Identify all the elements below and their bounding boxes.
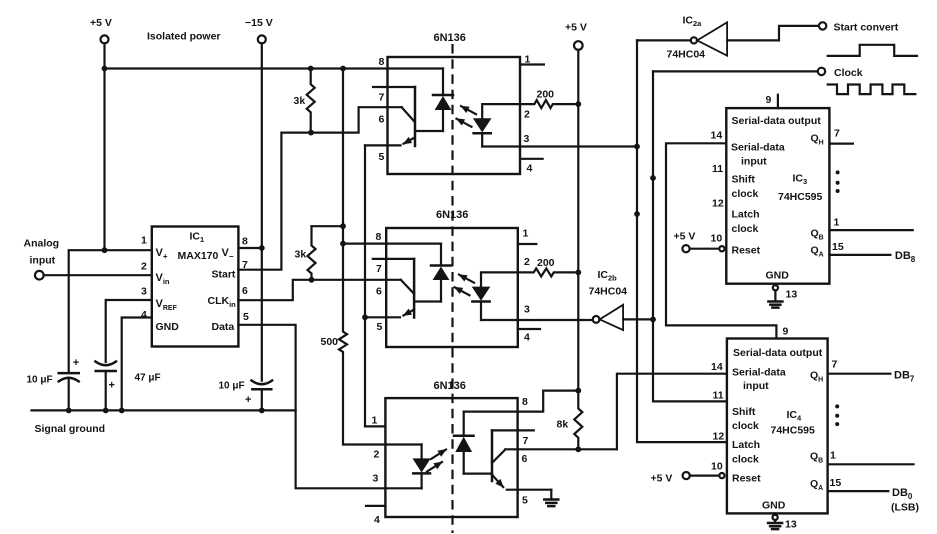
svg-text:15: 15 [832, 241, 844, 253]
wire IC1 GND pin4 to signal ground [122, 318, 152, 411]
svg-text:+: + [109, 380, 115, 392]
node: clock vertical to IC3 shift clock [650, 175, 656, 181]
opto1 pin4 stub [520, 158, 543, 160]
svg-text:clock: clock [732, 223, 759, 235]
svg-text:7: 7 [376, 263, 382, 275]
svg-text:6N136: 6N136 [434, 380, 466, 392]
wire analog input to IC1 Vin [44, 274, 152, 276]
resistor 8k (data pull-up) [574, 391, 582, 450]
svg-text:Clock: Clock [834, 67, 863, 79]
svg-text:Reset: Reset [732, 473, 761, 485]
svg-text:+5 V: +5 V [651, 473, 673, 485]
node: rail to isolated bus vertical [340, 66, 346, 72]
svg-text:7: 7 [379, 92, 385, 104]
optocoupler 6N136 (middle, Clock) [343, 209, 540, 347]
capacitor 10uF (-15V bypass) [219, 381, 273, 411]
Start convert pulse waveform [828, 45, 917, 56]
opto3 transistor [491, 430, 494, 481]
-15V supply terminal [245, 17, 273, 381]
IC4 QA output pin15 to DB0 [828, 490, 889, 492]
IC3 labels [731, 115, 824, 282]
IC4 reset +5V terminal [651, 472, 725, 485]
svg-text:7: 7 [523, 435, 529, 447]
opto1 LED [482, 104, 520, 118]
svg-text:6N136: 6N136 [436, 209, 468, 221]
svg-text:10: 10 [711, 461, 723, 473]
opto1 photodiode [433, 94, 453, 97]
wire 3k2 top link to bus [312, 225, 344, 227]
svg-text:+5 V: +5 V [90, 17, 112, 29]
ground (opto3 pin5, host side) [544, 490, 558, 506]
svg-text:1: 1 [834, 217, 840, 229]
svg-text:14: 14 [711, 130, 723, 142]
svg-text:10: 10 [711, 233, 723, 245]
signal ground rail [32, 409, 296, 411]
+5V host supply terminal [565, 22, 587, 391]
op-amp IC1 MAX170 ADC box [152, 227, 239, 347]
svg-text:input: input [743, 380, 769, 392]
svg-text:7: 7 [832, 359, 838, 371]
svg-text:clock: clock [732, 188, 759, 200]
svg-text:1: 1 [523, 228, 529, 240]
svg-text:GND: GND [156, 321, 180, 333]
opto2 transistor [413, 259, 416, 318]
svg-text:9: 9 [766, 94, 772, 106]
wire IC1 Start to opto1 pin6 [238, 107, 401, 270]
node: opto3 pin8 wire to +5V vertical [575, 388, 581, 394]
svg-text:1: 1 [372, 415, 378, 427]
svg-text:Data: Data [212, 321, 235, 333]
opto2 pin4 stub [518, 328, 540, 330]
svg-text:200: 200 [537, 89, 555, 101]
svg-text:74HC04: 74HC04 [667, 49, 706, 61]
wire IC1 CLKin to opto2 pin6 [238, 280, 400, 300]
wire isolated +5V bus vertical with 500 ohm resistor to opto3 LED [339, 69, 422, 445]
svg-text:6: 6 [376, 286, 382, 298]
opto3 light arrows [431, 450, 446, 460]
svg-text:+: + [73, 357, 79, 369]
isolation barrier dashed line [451, 44, 453, 533]
svg-text:3k: 3k [294, 95, 306, 107]
svg-text:−15 V: −15 V [245, 17, 273, 29]
wire IC2a output to start/latch vertical [637, 39, 691, 41]
svg-text:Serial-data: Serial-data [731, 142, 785, 154]
svg-text:+5 V: +5 V [565, 22, 587, 34]
IC4 labels [732, 347, 823, 512]
opto3 pin8 wire to +5V [464, 391, 579, 412]
opto1 photodiode feed from rail [442, 69, 444, 96]
node: 47uF to ground rail [103, 408, 109, 414]
svg-text:MAX170: MAX170 [178, 250, 219, 262]
svg-text:GND: GND [762, 500, 786, 512]
svg-text:5: 5 [243, 311, 249, 323]
svg-text:200: 200 [537, 257, 555, 269]
svg-text:10 μF: 10 μF [27, 375, 53, 386]
svg-text:1: 1 [525, 54, 531, 66]
Clock terminal [818, 68, 825, 75]
node: pin8 to -15V vertical [259, 245, 265, 251]
node: 8k bottom to data wire [575, 446, 581, 452]
wire opto2 pin3 to IC2b output [481, 319, 593, 321]
IC4 QB output pin1 [828, 463, 914, 465]
node: 3k top bottom to start wire [308, 130, 314, 136]
opto2 photodiode [440, 244, 442, 266]
wire IC1 Data to opto3 pin3 [238, 325, 421, 489]
isolated +5V top rail wire [105, 67, 444, 69]
opto3 photodiode [463, 412, 465, 436]
svg-text:1: 1 [830, 450, 836, 462]
svg-text:Start: Start [212, 269, 236, 281]
svg-text:11: 11 [712, 163, 723, 175]
svg-text:74HC595: 74HC595 [771, 425, 816, 437]
wire IC1 pin1 V+ branch down to 10uF cap [69, 250, 152, 373]
svg-text:8: 8 [522, 396, 528, 408]
IC3 reset +5V terminal [674, 231, 725, 253]
svg-text:input: input [30, 255, 56, 267]
resistor 200 (top, opto1 LED) [520, 100, 578, 108]
IC3 pin9 stub [777, 95, 779, 108]
IC1 pin number labels [141, 235, 249, 324]
svg-text:10 μF: 10 μF [219, 381, 245, 392]
shift register IC3 74HC595 box [726, 108, 829, 284]
node: +5V to rail [102, 66, 108, 72]
shift register IC4 74HC595 box [727, 339, 828, 514]
svg-text:6N136: 6N136 [434, 32, 466, 44]
svg-text:8: 8 [242, 236, 248, 248]
node: clock vertical to IC2b input [650, 317, 656, 323]
svg-text:Analog: Analog [24, 238, 60, 250]
IC4 QH output pin7 to DB7 [828, 373, 891, 375]
opto1 light arrows [461, 106, 476, 114]
IC4 pin13 ground [768, 513, 797, 530]
IC3 ellipsis dots [836, 170, 840, 174]
svg-text:3: 3 [373, 473, 379, 485]
svg-text:Start convert: Start convert [834, 22, 899, 34]
svg-text:3: 3 [524, 133, 530, 145]
node: 200 top to +5V vertical [575, 101, 581, 107]
svg-text:74HC04: 74HC04 [589, 286, 628, 298]
wire opto1 pin3 to IC2a output vertical [482, 145, 637, 147]
Start convert terminal [819, 22, 826, 29]
svg-text:+: + [245, 394, 251, 406]
resistor 200 (middle, opto2 LED) [518, 268, 579, 276]
svg-text:13: 13 [785, 519, 797, 531]
svg-text:2: 2 [524, 109, 530, 121]
svg-text:Shift: Shift [732, 406, 756, 418]
wire IC3 serial-data input from IC4 pin9 cascade [666, 143, 776, 337]
svg-text:7: 7 [834, 128, 840, 140]
svg-text:4: 4 [527, 163, 533, 175]
node: opto2 pin5 to emitters tie [362, 314, 368, 320]
svg-text:Signal ground: Signal ground [35, 423, 106, 435]
opto2 pin1 stub [518, 243, 537, 245]
opto2 light arrows [459, 275, 474, 283]
svg-text:4: 4 [141, 309, 147, 321]
svg-text:4: 4 [524, 332, 530, 344]
wire Clock terminal to clock vertical [653, 70, 818, 72]
optocoupler 6N136 (top, Start) [365, 32, 544, 175]
node: -15V cap to ground rail [259, 408, 265, 414]
svg-text:3: 3 [141, 286, 147, 298]
opto1 pin1 stub [520, 63, 544, 65]
wire IC2a input from Start convert terminal [727, 26, 819, 41]
svg-text:2: 2 [374, 449, 380, 461]
opto3 pin4 stub [366, 505, 385, 507]
svg-text:input: input [741, 156, 767, 168]
svg-text:12: 12 [713, 431, 725, 443]
IC4 ellipsis dots [835, 404, 839, 408]
node: start vertical to IC3 latch clock [634, 211, 640, 217]
svg-text:clock: clock [732, 420, 759, 432]
svg-text:6: 6 [242, 285, 248, 297]
IC3 QB output pin1 [829, 229, 912, 231]
node: +5V vertical to pin1 wire [102, 247, 108, 253]
wire IC1 pin8 V- to -15V [238, 247, 261, 249]
svg-text:6: 6 [379, 114, 385, 126]
svg-text:Serial-data: Serial-data [732, 367, 786, 379]
svg-text:5: 5 [522, 495, 528, 507]
inverter IC2b 74HC04 [589, 269, 628, 330]
IC1 labels [156, 231, 237, 334]
svg-text:2: 2 [524, 256, 530, 268]
opto3 LED [421, 445, 423, 459]
svg-text:13: 13 [786, 289, 798, 301]
svg-text:14: 14 [711, 361, 723, 373]
node: pin4 wire to ground rail [119, 408, 125, 414]
IC3 pin13 ground [768, 284, 797, 308]
wire inverted-start/latch vertical to IC4 latch clock [637, 40, 727, 442]
svg-text:11: 11 [713, 390, 724, 402]
Clock square waveform [828, 85, 916, 95]
wire opto3 pin6 data output [505, 448, 617, 450]
svg-text:6: 6 [522, 453, 528, 465]
svg-text:9: 9 [783, 326, 789, 338]
svg-text:1: 1 [141, 235, 147, 247]
svg-text:47 μF: 47 μF [135, 373, 161, 384]
node: start vertical to opto1 pin3 wire [634, 144, 640, 150]
svg-text:500: 500 [321, 336, 339, 348]
node: 10uF to ground rail [66, 408, 72, 414]
emitters tie vertical wire (opto1 pin5 / opto2 pin5 / opto3 pin1) [364, 145, 366, 426]
capacitor 47uF (VREF) [95, 300, 160, 410]
svg-text:Shift: Shift [732, 174, 756, 186]
svg-text:8k: 8k [557, 419, 569, 431]
optocoupler 6N136 (bottom, Data) [365, 380, 578, 526]
svg-text:8: 8 [376, 231, 382, 243]
wire IC2b input from clock vertical [623, 318, 653, 320]
analog input terminal [35, 271, 44, 280]
resistor 3k (middle, Clock pull-up) [308, 226, 316, 280]
opto1 transistor [414, 87, 417, 146]
svg-text:Serial-data output: Serial-data output [733, 347, 823, 359]
node: rail to 3k pullup [308, 66, 314, 72]
svg-text:Latch: Latch [732, 439, 760, 451]
svg-text:3: 3 [524, 304, 530, 316]
svg-text:Latch: Latch [732, 209, 760, 221]
svg-text:3k: 3k [295, 249, 307, 261]
node: bus to 3k2 [340, 223, 346, 229]
svg-text:15: 15 [830, 477, 842, 489]
opto3 pin1 stub from emitters tie [365, 425, 385, 427]
capacitor 10uF (V+ bypass) [27, 357, 80, 410]
+5V isolated supply terminal [90, 17, 112, 250]
wire clock vertical to IC4 shift clock [653, 71, 727, 401]
inverter IC2a 74HC04 [667, 15, 728, 61]
svg-text:4: 4 [374, 514, 380, 526]
IC3 QH output stub pin7 [829, 143, 853, 145]
svg-text:8: 8 [379, 56, 385, 68]
node: 200 middle to +5V vertical [575, 270, 581, 276]
svg-text:Reset: Reset [732, 245, 761, 257]
wire opto3 data to IC4 serial-data input [617, 374, 727, 450]
svg-text:5: 5 [377, 321, 383, 333]
opto2 pin8 wire from isolated bus [343, 243, 441, 245]
svg-text:12: 12 [712, 198, 724, 210]
svg-text:clock: clock [732, 454, 759, 466]
svg-text:Serial-data output: Serial-data output [732, 115, 822, 127]
node: bus to opto2 pin8 [340, 241, 346, 247]
opto2 LED [481, 272, 518, 286]
svg-text:GND: GND [766, 270, 790, 282]
IC3 QA output pin15 to DB8 [829, 254, 890, 256]
resistor 3k (top, Start pull-up) [307, 69, 315, 133]
svg-text:2: 2 [141, 261, 147, 273]
node: 3k2 bottom to clock wire [309, 277, 315, 283]
svg-text:74HC595: 74HC595 [778, 191, 823, 203]
svg-text:(LSB): (LSB) [891, 502, 919, 514]
svg-text:5: 5 [379, 151, 385, 163]
svg-text:Isolated power: Isolated power [147, 31, 221, 43]
svg-text:+5 V: +5 V [674, 231, 696, 243]
